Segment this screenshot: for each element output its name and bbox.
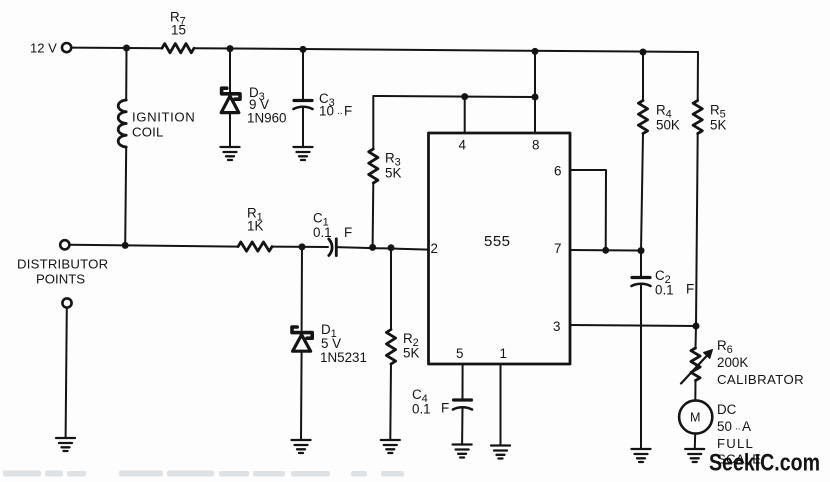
ground under C4 [453,445,472,458]
svg-text:1N5231: 1N5231 [320,350,367,365]
ground under D3 [221,147,240,160]
junction line / R3 [369,244,376,251]
resistor R1 1K [238,206,272,252]
wire second rail R3 to pin8 drop [373,96,535,97]
ground under pin1 [491,446,510,459]
junction second rail / pin4 [461,93,468,100]
svg-text:1N960: 1N960 [247,111,286,126]
node 12V terminal [30,41,71,56]
svg-text:..: .. [337,106,343,117]
svg-text:..: .. [735,422,741,433]
svg-text:10: 10 [319,104,334,119]
meter M DC 50uA full scale [679,400,761,466]
junction top rail / D3 [227,45,234,52]
inductor ignition coil L1 [118,48,195,245]
svg-text:F: F [344,225,352,240]
diode D1 zener 5V 1N5231 [292,247,367,439]
svg-text:50K: 50K [656,118,680,133]
svg-text:4: 4 [459,138,467,153]
wire pin3 line [570,325,696,326]
wire C1 to pin2 [337,247,429,250]
svg-text:R6: R6 [717,338,733,356]
svg-text:1: 1 [500,346,507,361]
svg-text:SeekIC.com: SeekIC.com [709,450,820,477]
svg-text:F: F [686,282,694,297]
ground under C3 [294,147,313,160]
junction top rail / R4 [640,49,647,56]
wire pin1 drop [500,364,502,445]
svg-text:6: 6 [554,164,561,179]
svg-text:0.1: 0.1 [412,402,431,417]
junction top rail / pin8 drop [532,48,539,55]
junction line / R2 [388,244,395,251]
resistor R7 [162,10,194,53]
svg-text:0.1: 0.1 [655,283,674,298]
junction pin3 / R5 / R6 [693,323,700,330]
wire distributor line to R1 [70,245,238,247]
capacitor C4 0.1uF [412,387,472,444]
ground under C2 [632,449,651,462]
resistor R3 5K [369,96,402,247]
wire lower terminal to ground [66,308,67,437]
svg-text:F: F [441,401,449,416]
svg-text:A: A [742,419,751,434]
svg-text:15: 15 [171,23,186,38]
svg-text:5 V: 5 V [321,336,341,351]
svg-text:5K: 5K [710,118,726,133]
junction pin7 / pin6 loop [602,247,609,254]
node distributor points terminal upper [17,240,108,286]
capacitor C2 0.1uF [632,251,695,448]
svg-text:DISTRIBUTOR: DISTRIBUTOR [17,257,108,272]
junction top rail / ignition coil [123,45,130,52]
wire R1 to C1 [272,246,328,248]
svg-text:DC: DC [717,402,737,417]
svg-text:1K: 1K [247,219,263,234]
svg-text:M: M [690,411,701,425]
resistor R4 50K [638,52,679,251]
diode D3 zener 9V 1N960 [221,49,286,146]
svg-text:IGNITION: IGNITION [132,110,195,125]
svg-text:555: 555 [484,233,511,250]
wire pin6 loop [570,170,606,250]
svg-text:CALIBRATOR: CALIBRATOR [717,372,804,387]
svg-text:COIL: COIL [132,125,164,140]
op-amp U1 555 timer box [429,133,571,364]
svg-text:12 V: 12 V [30,41,57,56]
junction top rail / C3 [300,46,307,53]
svg-text:200K: 200K [717,355,748,370]
svg-text:F: F [344,104,352,119]
svg-text:50: 50 [717,419,732,434]
wire top rail R7 to R5 bend [194,48,698,52]
svg-text:2: 2 [431,241,438,256]
svg-text:0.1: 0.1 [313,225,332,240]
svg-text:8: 8 [532,138,539,153]
wire pin4 drop [464,97,466,133]
svg-text:5K: 5K [403,346,419,361]
wire pin5 drop [462,364,464,399]
wire pin8 drop [534,51,536,133]
resistor R2 5K [386,248,419,439]
junction second rail / pin8 drop [532,94,539,101]
svg-text:5: 5 [456,346,463,361]
wire top rail 12V to R7 [72,47,163,50]
junction line / D1 [299,243,306,250]
resistor R6 200K calibrator (variable) [681,326,804,401]
svg-text:POINTS: POINTS [36,272,85,287]
resistor R5 5K [693,52,726,326]
junction pin7 / R4 / C2 [638,247,645,254]
capacitor C1 0.1uF [313,211,352,256]
svg-text:7: 7 [554,241,561,256]
ground under R2 [381,440,400,453]
node distributor points terminal lower [62,298,71,307]
junction distributor line / coil [122,242,129,249]
ground under distributor points [56,438,75,451]
wire pin7 line [570,249,641,252]
capacitor C3 10uF [294,49,353,146]
svg-text:5K: 5K [385,166,401,181]
ground under D1 [292,440,311,453]
faint scan artifacts bottom band [3,471,404,477]
ground under meter [685,449,704,462]
svg-text:3: 3 [553,319,560,334]
